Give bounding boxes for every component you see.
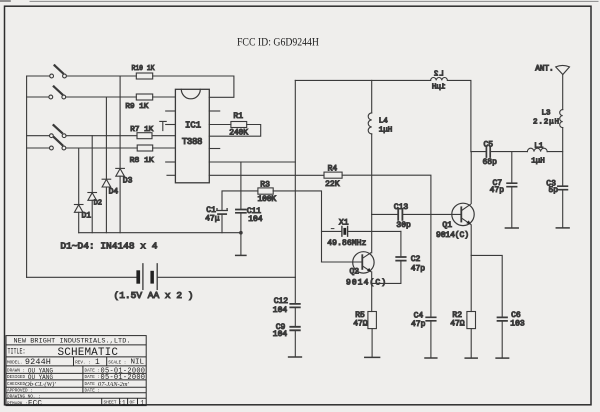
svg-text:47p: 47p [411,265,426,274]
capacitor C5 [486,146,490,157]
ground below C4 [425,357,437,359]
svg-text:9014(C): 9014(C) [436,231,469,240]
svg-text:IC1: IC1 [185,121,201,131]
svg-text:1: 1 [122,400,126,407]
svg-text:47μ: 47μ [205,215,220,224]
diode D4 with wire from row2 to common line [102,97,111,233]
wire: L1 to antenna column [547,151,562,153]
wire: R5 to ground [371,329,373,358]
svg-text:47Ω: 47Ω [353,320,368,329]
svg-text:100K: 100K [258,195,277,204]
svg-text:R8 1K: R8 1K [130,157,154,165]
wire: switch row 4 [27,147,138,149]
junction dot at C11 ground node [239,231,243,235]
svg-text:104: 104 [273,330,288,339]
svg-text:C5: C5 [484,141,494,150]
wire: R10 to IC pin loop over top [153,76,234,97]
svg-text:07-JAN-2m′: 07-JAN-2m′ [98,381,129,388]
ground below R2 [465,357,477,359]
svg-text:L1: L1 [534,143,544,151]
ground below C7 [505,227,518,229]
wire: R8 to IC1 left pin 5 [153,147,176,149]
IC1 right pin 5 stub [209,148,219,150]
svg-text:R9 1K: R9 1K [125,103,148,111]
battery B1 1.5V AA x 2 [27,264,296,290]
switch S3 [50,124,67,138]
resistor R10 [136,73,152,79]
stray tick left of X1 [331,228,334,230]
antenna symbol [556,65,570,74]
svg-text:ANT.: ANT. [535,66,554,74]
inductor L1 [527,148,547,151]
svg-text:DATE :: DATE : [85,375,100,380]
IC1 right pin 2 stub [209,110,219,112]
inductor L2 [431,78,448,81]
svg-text:DATE :: DATE : [85,389,100,394]
svg-text:TITLE:: TITLE: [8,348,26,357]
svg-text:22K: 22K [325,180,340,189]
svg-text:L2: L2 [434,70,444,78]
svg-text:5p: 5p [549,186,559,195]
svg-text:9014(C): 9014(C) [346,278,386,287]
ground below R5 [365,356,380,358]
svg-text:1μH: 1μH [531,157,545,165]
svg-text:104: 104 [273,306,288,315]
wire: R7 to IC1 left pin 4 [152,135,175,137]
resistor R3 [258,188,273,194]
svg-text:DRAWING NO. :: DRAWING NO. : [7,394,41,399]
svg-text:DRAWN :: DRAWN : [7,368,25,373]
svg-text:Q1: Q1 [442,221,452,230]
svg-text:T388: T388 [182,137,203,147]
IC1 left pin 6 stub [166,161,176,163]
wire: C5 to L1 [491,151,528,153]
capacitor C1 electrolytic [217,209,228,233]
svg-text:30p: 30p [396,221,411,230]
wire: IC1 right pin 7 to R4 [209,174,324,176]
svg-text:R7 1K: R7 1K [130,126,153,134]
svg-text:1: 1 [141,400,145,407]
svg-text:2.2μH: 2.2μH [533,118,559,126]
svg-text:FCC: FCC [28,400,42,408]
ground below C6 [496,357,509,359]
svg-text:(1.5V AA x 2 ): (1.5V AA x 2 ) [114,290,194,301]
capacitor C4 [426,214,436,358]
svg-text:L4: L4 [379,117,389,125]
capacitor C11 [236,162,246,233]
svg-text:D2: D2 [94,200,102,208]
svg-text:C13: C13 [394,203,409,212]
wire: Q1 emitter to C6 branch [471,255,502,316]
wire: left battery bus vertical [26,76,28,277]
capacitor C6 [498,317,508,358]
svg-text:FCC ID: G6D9244H: FCC ID: G6D9244H [237,34,319,48]
svg-text:OF: OF [130,400,136,406]
switch S1 [50,64,67,78]
resistor R4 [324,172,342,178]
svg-text:REV. :: REV. : [75,360,90,365]
resistor R2 [467,255,476,358]
svg-text:R10 1K: R10 1K [132,65,155,73]
wire: R3 left to C1 [222,191,258,210]
ground below C9 [289,356,302,358]
label 1uH mirrored [432,84,446,92]
diode D1 with wire from row4 to common line [74,148,83,233]
label L2 mirrored [434,70,444,78]
svg-text:C2: C2 [411,255,421,264]
svg-text:D1: D1 [82,211,92,220]
wire: diode common line to ground junction [79,232,241,234]
IC1 left pin 2 stub [166,110,176,112]
svg-text:C12: C12 [274,297,289,306]
switch S4 [50,136,66,150]
wire: R4 column from base node up [342,175,431,214]
svg-text:103: 103 [510,320,525,329]
wire: battery plus up supply column [294,80,296,277]
IC1 left pin 7 stub [167,174,175,176]
resistor R1 [231,122,247,128]
svg-text:1μH: 1μH [432,84,446,92]
svg-text:D1~D4: IN4148 x 4: D1~D4: IN4148 x 4 [60,241,157,252]
svg-text:49.86MHz: 49.86MHz [327,239,366,248]
capacitor C7 [507,152,516,228]
svg-text:NEW BRIGHT INDUSTRIALS.,LTD.: NEW BRIGHT INDUSTRIALS.,LTD. [14,337,131,345]
transistor Q1 [452,152,474,256]
resistor R5 [368,312,377,329]
svg-text:1μH: 1μH [379,126,393,134]
svg-text:1: 1 [95,358,100,367]
capacitor C2 [372,231,406,283]
diode D3 with wire from row1 to common line [116,76,125,233]
svg-text:Ob·CL·(W)′: Ob·CL·(W)′ [25,381,56,388]
capacitor C3 [558,186,568,228]
resistor R8 [137,145,153,151]
svg-text:DESIGED :: DESIGED : [7,375,30,380]
wire: C13 to Q1 base [403,213,461,215]
IC1 left pin 3 stub with key mark [160,121,176,130]
svg-text:9244H: 9244H [25,357,51,367]
wire: R9 to IC1 left pin 1 [153,96,176,98]
resistor R9 [136,94,152,100]
svg-text:Q2: Q2 [350,268,360,277]
diode D2 with wire from row3 to common line [88,136,97,233]
transistor Q2 [322,214,375,311]
IC1 T388 DIP body [175,89,209,183]
wire: L3 to C5 row junction and down to C3 [562,128,564,186]
svg-text:R3: R3 [260,180,270,189]
wire: Q2 collector node row to C13 [372,213,398,215]
wire: IC1 right pin 3 to R1 [209,124,231,126]
wire: top supply rail [295,79,430,81]
svg-text:R1: R1 [233,112,243,121]
wire: switch row 2 [27,96,137,98]
svg-text:R4: R4 [328,165,338,174]
svg-text:DATE :: DATE : [85,368,100,373]
wire: C5 row from collector column [471,151,486,153]
svg-text:NIL: NIL [131,359,145,367]
inductor L3 [560,110,563,128]
wire: IC1 right pin 6 to supply column [209,161,295,163]
svg-text:47Ω: 47Ω [450,320,465,329]
svg-text:SCALE :: SCALE : [108,360,126,365]
ground below C1/C11 common [236,233,246,256]
title block [6,336,146,406]
svg-text:REMARK :: REMARK : [7,401,28,406]
svg-text:D4: D4 [109,187,119,196]
svg-text:C1: C1 [206,206,216,215]
wire: switch row 1 [27,75,137,77]
svg-text:SHEET :: SHEET : [104,401,122,406]
crystal X1 [342,227,348,237]
svg-text:D3: D3 [123,176,133,185]
svg-text:APPROVED :: APPROVED : [7,389,33,394]
svg-text:47p: 47p [490,186,505,195]
wire: rail after L2 down to C5 row [447,80,471,151]
capacitor C12 [290,277,300,307]
wire: antenna down to L3 [562,75,564,110]
svg-text:OU YANG: OU YANG [28,374,53,381]
svg-text:X1: X1 [339,219,349,228]
ground below C3 [556,227,569,229]
svg-text:47p: 47p [411,320,426,329]
svg-text:68p: 68p [483,158,498,167]
inductor L4 [368,80,372,214]
switch S2 [49,85,66,99]
svg-text:104: 104 [248,215,263,224]
wire: X1 row [322,230,401,232]
svg-text:SCHEMATIC: SCHEMATIC [58,347,119,359]
resistor R7 [137,133,152,139]
capacitor C13 [398,209,402,220]
wire: switch row 3 [27,135,137,137]
wire: R1 loop back to IC1 right pin 4 [209,125,260,137]
svg-text:L3: L3 [542,110,552,118]
wire: R3 right to crystal node [273,191,321,262]
capacitor C9 [290,308,300,357]
